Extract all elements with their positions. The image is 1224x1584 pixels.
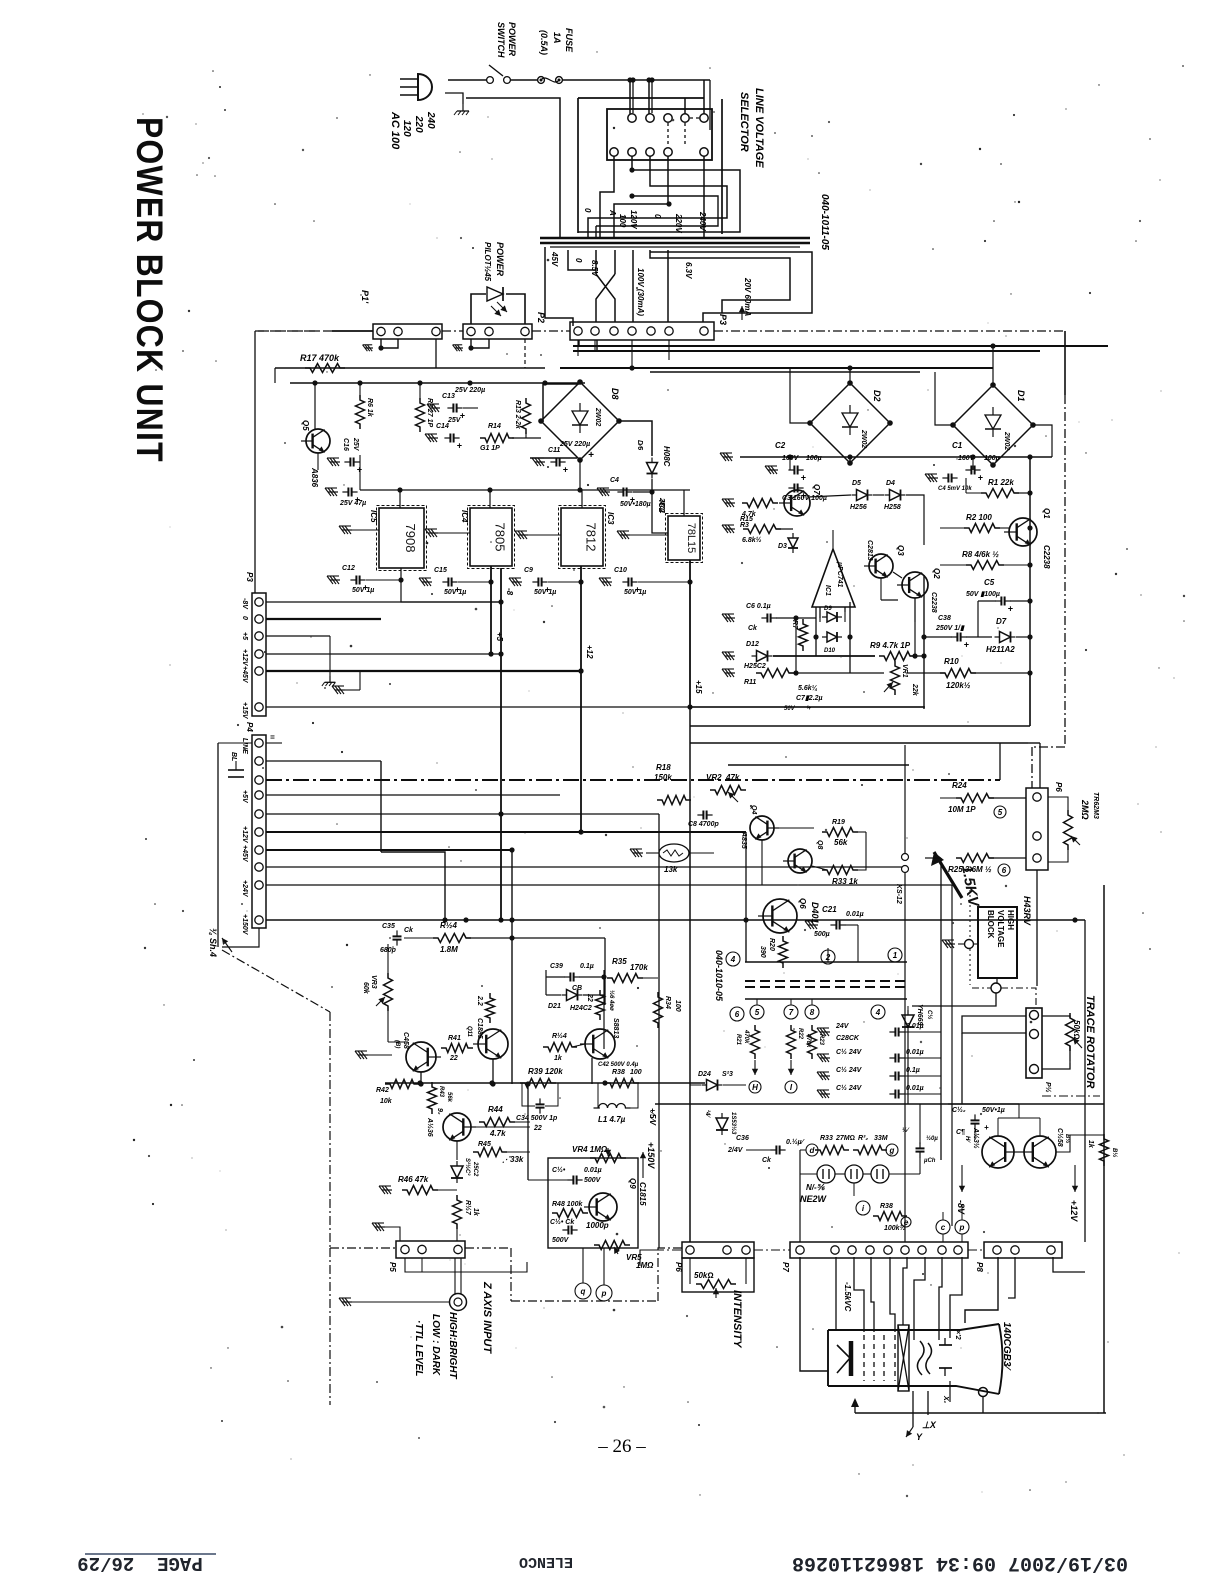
svg-text:R25 3.6M ½: R25 3.6M ½ (948, 865, 992, 874)
svg-text:120V: 120V (629, 210, 638, 229)
svg-text:INTENSITY: INTENSITY (731, 1290, 743, 1349)
svg-text:D⁄6: D⁄6 (636, 440, 643, 450)
T2 aux caps row2 (820, 1057, 830, 1059)
svg-text:C½₂: C½₂ (952, 1106, 966, 1114)
wire D1 right down (1033, 425, 1052, 457)
svg-text:C9: C9 (524, 567, 533, 574)
P5 under-loop (405, 1258, 527, 1272)
svg-text:H08C: H08C (662, 446, 671, 467)
svg-text:⁽+: ⁽+ (806, 705, 811, 712)
resistor R45 33k (473, 1148, 507, 1157)
svg-text:P1': P1' (360, 290, 370, 304)
svg-text:+: + (588, 450, 594, 461)
svg-text:R1 22k: R1 22k (988, 478, 1014, 487)
connector P7 (790, 1242, 968, 1258)
circled Q terminal (575, 1283, 591, 1299)
svg-text:C7▮2.2µ: C7▮2.2µ (796, 695, 823, 702)
svg-text:+5: +5 (241, 632, 248, 640)
svg-text:D7: D7 (996, 617, 1007, 626)
svg-text:P8: P8 (975, 1262, 984, 1272)
wire bus to bridge D8 top (545, 383, 579, 385)
svg-text:100: 100 (618, 214, 627, 228)
svg-text:SELECTOR: SELECTOR (738, 92, 750, 152)
svg-text:250V 1/▮: 250V 1/▮ (935, 625, 965, 632)
svg-text:+: + (978, 473, 984, 483)
svg-text:R38: R38 (880, 1203, 893, 1210)
svg-text:8.5V: 8.5V (590, 260, 599, 277)
resistor R8 4.6k (966, 561, 1004, 570)
svg-text:R2 100: R2 100 (966, 513, 992, 522)
pilot lamp loop (471, 294, 486, 324)
svg-text:R39 120k: R39 120k (528, 1067, 563, 1076)
resistor R17 470k (305, 364, 345, 373)
svg-text:SWITCH: SWITCH (496, 22, 506, 58)
svg-text:R35: R35 (612, 957, 627, 966)
svg-text:20V 60mA: 20V 60mA (743, 277, 752, 316)
wire x948 to Q area (948, 1103, 1019, 1105)
resistor R21 470k vertical (751, 1025, 760, 1059)
svg-text:-1.5kVC: -1.5kVC (843, 1282, 852, 1312)
vertical x512 long (511, 850, 513, 1084)
svg-text:PILOT½45: PILOT½45 (483, 242, 492, 282)
svg-text:500µ: 500µ (814, 931, 830, 938)
svg-text:78L15: 78L15 (685, 523, 697, 554)
resistor R32 27k (815, 1146, 849, 1155)
vertical x690 long (689, 707, 691, 1242)
svg-text:7805: 7805 (493, 523, 508, 552)
svg-text:1000p: 1000p (586, 1221, 609, 1230)
svg-text:470k: 470k (743, 1029, 749, 1044)
transformer T2 primary rail (745, 961, 907, 963)
wire from P6V loop (1048, 797, 1068, 810)
svg-text:0: 0 (653, 214, 662, 219)
HV block left terminal (965, 940, 974, 949)
wire drops to selector pins (632, 80, 634, 113)
svg-text:2W02: 2W02 (594, 407, 601, 426)
diode D12 H25C2 (725, 655, 735, 657)
circled I terminal (856, 1201, 870, 1215)
secondary tap 100V (632, 250, 634, 322)
IC3 voltage regulator 7812 (559, 506, 606, 569)
svg-text:LOW : DARK: LOW : DARK (430, 1314, 441, 1376)
transistor Q11 C458 (406, 1042, 436, 1072)
svg-text:c: c (941, 1223, 946, 1232)
vertical x941 (940, 858, 942, 1160)
strip bottom stub (222, 928, 259, 947)
svg-text:R44: R44 (488, 1105, 503, 1114)
svg-text:8: 8 (810, 1008, 815, 1017)
svg-text:100µ: 100µ (806, 455, 822, 462)
wire VR3 to Q11 (388, 1041, 408, 1043)
svg-text:R48 100k: R48 100k (552, 1201, 583, 1208)
coax to BNC (454, 1258, 456, 1294)
svg-text:S²½C²: S²½C² (464, 1158, 471, 1176)
svg-text:+45V: +45V (241, 666, 248, 684)
svg-text:H256: H256 (850, 504, 867, 511)
svg-text:040-1011-05: 040-1011-05 (819, 194, 830, 250)
svg-text:P4: P4 (245, 722, 254, 732)
CRT gun wires from P7 (800, 1257, 828, 1371)
IC5 voltage regulator 7908 (377, 506, 427, 571)
svg-text:0.01µ: 0.01µ (906, 1049, 924, 1056)
svg-text:C½: C½ (926, 1010, 933, 1019)
wires neon chain (800, 1173, 817, 1175)
CRT P8 wires (965, 1257, 998, 1323)
resistor R9 4.7k 1P (879, 652, 915, 661)
svg-text:H258: H258 (884, 504, 901, 511)
svg-text:D4: D4 (886, 480, 895, 487)
capacitor C15 under IC4 (422, 581, 432, 583)
svg-text:H: H (752, 1083, 758, 1092)
capacitor C28 250V (951, 636, 957, 638)
svg-text:R½4: R½4 (440, 921, 457, 930)
svg-text:N/-⅚: N/-⅚ (806, 1183, 826, 1192)
diode D4 H258 (890, 490, 901, 501)
svg-text:47k: 47k (725, 773, 740, 782)
svg-text:50kΩ: 50kΩ (694, 1271, 714, 1280)
ground stub near strip (335, 689, 345, 691)
svg-text:22: 22 (449, 1055, 458, 1062)
svg-text:C½• Ck: C½• Ck (550, 1218, 575, 1226)
ground below plug (462, 104, 464, 111)
resistor R41 22 (441, 1044, 473, 1053)
svg-text:60k: 60k (362, 982, 369, 995)
T2 primary nodes (726, 952, 740, 966)
ground stub P5 (375, 1226, 385, 1228)
svg-text:500V: 500V (584, 1177, 602, 1184)
svg-text:Q6: Q6 (798, 898, 807, 909)
svg-text:+150V: +150V (241, 914, 248, 936)
vertical from diode down (907, 1032, 909, 1104)
diode D7 H211A2 (1000, 632, 1011, 643)
resistor R7 5k vertical (799, 619, 808, 651)
resistor R33 1k (822, 866, 858, 875)
svg-text:+: + (460, 411, 466, 421)
bridge rectifier D2 (810, 383, 890, 463)
wire heavy y1104 (655, 1103, 1104, 1105)
svg-text:H211A2: H211A2 (986, 645, 1015, 654)
svg-text:0: 0 (241, 616, 248, 620)
svg-text:0: 0 (574, 258, 583, 263)
svg-text:+24V: +24V (241, 880, 248, 898)
secondary right nest (650, 252, 812, 322)
svg-text:22k: 22k (911, 683, 918, 697)
resistor R46 47k (382, 1189, 392, 1191)
footer PAGE 26/29 (rotated) (77, 1552, 216, 1574)
svg-text:R5 27 1P: R5 27 1P (426, 398, 433, 428)
svg-text:240: 240 (425, 111, 436, 129)
op-amp U1 uPC741 (812, 549, 855, 607)
resistor R50 1k vertical (1100, 1134, 1109, 1166)
arrow -8V (961, 1165, 963, 1192)
capacitor C44 50V 1u (974, 1114, 976, 1120)
resistor R13 2.2k vertical (522, 398, 531, 434)
wire D1 left (935, 372, 953, 425)
svg-text:¾ Sh.4: ¾ Sh.4 (208, 928, 218, 957)
svg-text:A835: A835 (740, 831, 747, 849)
svg-text:0.01µ: 0.01µ (906, 1023, 924, 1030)
op-amp pin wires (832, 530, 834, 549)
neon lamp NE3 (871, 1165, 889, 1183)
capacitor C35 680p (396, 930, 398, 936)
connector P3 (570, 322, 714, 340)
wire y938 (404, 937, 438, 939)
step wire to y920 (381, 852, 445, 920)
svg-text:C1885: C1885 (476, 1018, 483, 1039)
wire D2 left loop (790, 368, 810, 423)
trace rotator connector (1026, 1008, 1042, 1078)
CRT pin labels (906, 1427, 913, 1437)
wire y798 left of R24 (940, 797, 961, 799)
svg-text:4: 4 (875, 1008, 881, 1017)
svg-text:P6: P6 (1054, 782, 1063, 792)
footer document number and date (rotated) (792, 1551, 1128, 1574)
svg-text:+: + (1008, 604, 1014, 614)
svg-text:ELENCO: ELENCO (519, 1553, 573, 1570)
resistor R5 27 1P vertical (419, 383, 421, 400)
transformer T2 core dashed (745, 980, 907, 982)
capacitor C4 50V 180u (600, 491, 610, 493)
capacitor C40 0.01u 500V (567, 1179, 573, 1181)
wire D16 to IC2 (652, 479, 668, 533)
CRT deflection block with X (898, 1325, 909, 1391)
wire P4 fan y761 (266, 760, 381, 762)
svg-text:H43RV: H43RV (1022, 896, 1032, 926)
vertical x1085 down to P8 (1084, 920, 1086, 1242)
diode D21 H24C2 (567, 990, 578, 1001)
zener D22 S5C2 (451, 1166, 463, 1178)
diodes D9 D10 stack (827, 612, 837, 622)
connector P1 (373, 324, 442, 339)
svg-text:L1 4.7µ: L1 4.7µ (598, 1115, 626, 1124)
svg-text:IC4: IC4 (460, 510, 469, 523)
svg-text:+: + (563, 465, 569, 475)
svg-text:H25C2: H25C2 (744, 663, 766, 670)
vertical x796 (795, 618, 797, 673)
transistor Q7 (784, 490, 810, 516)
svg-text:R24: R24 (952, 781, 967, 790)
wire D2 top (849, 368, 851, 383)
svg-text:g: g (889, 1146, 895, 1155)
svg-text:03/19/2007 09:34 1866211026: 03/19/2007 09:34 18662110268 (792, 1551, 1128, 1574)
circled P terminal (596, 1285, 612, 1301)
dash-dot to trace rotator (972, 987, 991, 989)
capacitor C43 (919, 1142, 921, 1148)
vertical x952 down (951, 885, 953, 1226)
transistor Q10 A564 (443, 1113, 471, 1141)
svg-text:HIGH: HIGH (1006, 910, 1015, 930)
vertical x1104 right (1103, 885, 1105, 1413)
resistor R15 6.8k (725, 528, 735, 530)
resistor R35 170k (607, 974, 643, 983)
svg-text:R13 2-2k: R13 2-2k (514, 400, 521, 430)
AC plug (418, 74, 432, 100)
svg-text:+45V: +45V (241, 845, 248, 863)
svg-text:50V 1µ: 50V 1µ (352, 587, 374, 594)
svg-text:C6 0.1µ: C6 0.1µ (746, 603, 771, 610)
potentiometer VR1 22k (891, 661, 900, 695)
dashed below P2 (524, 339, 526, 368)
resistor R24 10M 1P (956, 794, 994, 803)
svg-text:R20: R20 (768, 938, 775, 951)
wire P1 pin down to R17 rail (435, 339, 437, 368)
svg-text:C39: C39 (550, 963, 563, 970)
svg-text:VR1: VR1 (901, 664, 908, 678)
svg-text:R15: R15 (740, 516, 753, 523)
IC2 voltage regulator 78L15 (666, 514, 703, 563)
scan speckles (472, 247, 474, 249)
svg-text:0.1µ: 0.1µ (906, 1067, 920, 1074)
BL capacitor mark (228, 769, 244, 771)
svg-text:R42: R42 (376, 1087, 389, 1094)
CRT plate caps (939, 1344, 952, 1346)
svg-text:25V 220µ: 25V 220µ (559, 441, 590, 448)
svg-text:160V: 160V (782, 455, 800, 462)
resistor R11 row (725, 672, 735, 674)
svg-text:C11: C11 (548, 447, 560, 454)
T1 secondary winding taps (545, 247, 573, 326)
svg-text:50kΩ: 50kΩ (1072, 1020, 1081, 1040)
svg-text:Q2: Q2 (932, 568, 941, 579)
svg-text:+: + (984, 1123, 989, 1132)
svg-text:C1815: C1815 (638, 1182, 647, 1206)
intensity pot box (682, 1258, 754, 1292)
wire P4 fan y867 (266, 866, 902, 868)
ground Q11 (358, 1054, 368, 1056)
svg-text:50V ▮100µ: 50V ▮100µ (966, 591, 1000, 598)
svg-text:D10: D10 (824, 648, 836, 654)
power switch S (487, 77, 494, 84)
svg-text:100: 100 (630, 1069, 642, 1076)
wire Q2 emitter down (914, 598, 916, 656)
svg-text:7908: 7908 (403, 524, 418, 553)
svg-text:+150V: +150V (646, 1142, 656, 1169)
connector P6V vertical (1026, 788, 1048, 870)
svg-text:TRACE ROTATOR: TRACE ROTATOR (1084, 995, 1096, 1089)
wire Q7 to diodes (808, 495, 851, 497)
capacitor C2 100u (788, 469, 794, 471)
resistor R10 120k (940, 669, 976, 678)
svg-text:C½ 24V: C½ 24V (836, 1048, 863, 1056)
svg-text:VR4 1MΩ: VR4 1MΩ (572, 1145, 608, 1154)
svg-text:C35: C35 (382, 923, 395, 930)
svg-text:LINE VOLTAGE: LINE VOLTAGE (753, 88, 765, 168)
capacitor C39 0.1u (564, 976, 570, 978)
selector dashed links (690, 117, 699, 119)
svg-text:100V (30mA): 100V (30mA) (636, 268, 645, 316)
capacitor C9 under IC3 (512, 581, 522, 583)
svg-text:D1: D1 (1016, 390, 1026, 402)
capacitor C1 160V 100u (965, 469, 971, 471)
svg-text:220: 220 (413, 115, 424, 133)
svg-text:R½4: R½4 (552, 1032, 567, 1040)
svg-text:q: q (581, 1287, 586, 1296)
svg-text:VOLTAGE: VOLTAGE (996, 910, 1005, 948)
svg-text:D8: D8 (610, 388, 620, 400)
wire y619 (266, 618, 381, 620)
resistor R2 100 (964, 524, 1000, 533)
svg-text:R³₂: R³₂ (858, 1135, 868, 1142)
svg-text:25V: 25V (352, 437, 359, 452)
diode D24 (707, 1080, 718, 1091)
svg-text:D12: D12 (746, 641, 759, 648)
resistor R25 3.6M half (956, 854, 994, 863)
svg-text:µPC741: µPC741 (836, 561, 843, 588)
resistor R38b 100 (605, 1079, 639, 1088)
svg-text:C14: C14 (436, 423, 449, 430)
wire y743 heavy top of mid section (1028, 742, 1040, 744)
svg-text:R43: R43 (438, 1086, 444, 1098)
svg-text:50V•1µ: 50V•1µ (982, 1107, 1005, 1114)
svg-text:+: + (801, 473, 807, 483)
dash-dot chassis bottom left (330, 1247, 396, 1249)
high voltage block (978, 907, 1017, 978)
svg-text:C½ 24V: C½ 24V (836, 1084, 863, 1092)
wire P4 fan y920 heavy (266, 919, 1085, 921)
svg-text:R38: R38 (612, 1069, 625, 1076)
svg-text:VR2: VR2 (706, 773, 722, 782)
svg-text:150k: 150k (654, 773, 672, 782)
svg-text:240V: 240V (698, 211, 707, 231)
svg-text:45V: 45V (550, 251, 559, 267)
svg-text:C16: C16 (342, 438, 349, 451)
svg-text:10k: 10k (380, 1098, 393, 1105)
svg-text:9₂: 9₂ (436, 1108, 443, 1115)
svg-text:24V: 24V (835, 1023, 850, 1030)
transistor Q14 (982, 1136, 1014, 1168)
bridge rectifier D1 (953, 385, 1033, 465)
svg-text:1k: 1k (472, 1208, 479, 1217)
blanking block box (548, 1158, 638, 1248)
svg-text:R14: R14 (488, 423, 501, 430)
svg-text:×'2: ×'2 (954, 1330, 961, 1340)
resistor R34 100k vertical (654, 992, 663, 1028)
capacitor C13 25V 220u (430, 407, 440, 409)
wire P4 fan y814 (266, 813, 659, 815)
svg-text:C½ 24V: C½ 24V (836, 1066, 863, 1074)
dash-dot stub right (1042, 1095, 1100, 1097)
pilot connector circles (902, 854, 909, 861)
neutral wire to transformer (466, 98, 560, 238)
svg-text:C10: C10 (614, 567, 627, 574)
svg-text:120k½: 120k½ (946, 681, 971, 690)
vertical x978 (977, 601, 979, 637)
connector P6 (682, 1242, 754, 1258)
resistor R48 100k (552, 1209, 588, 1218)
svg-text:G1 1P: G1 1P (480, 445, 500, 452)
vertical x800 (799, 1150, 801, 1242)
svg-text:D5: D5 (852, 480, 861, 487)
svg-text:7: 7 (789, 1008, 794, 1017)
svg-text:Ck: Ck (748, 625, 758, 632)
diode D25 1S5353 vertical (716, 1118, 728, 1130)
svg-text:+: + (964, 640, 970, 650)
diode stack rails (815, 607, 817, 656)
svg-text:IC2: IC2 (657, 500, 666, 513)
wire y765 (728, 764, 909, 766)
svg-text:+: + (457, 441, 463, 451)
wire mid rail y726 (690, 725, 1030, 727)
vertical x659 long down (658, 814, 660, 1248)
svg-text:C½•: C½• (552, 1166, 566, 1174)
svg-text:1.8M: 1.8M (440, 945, 458, 954)
vertical x924 (923, 575, 925, 709)
svg-text:C34 500V 1p: C34 500V 1p (516, 1115, 558, 1122)
svg-text:A½3½: A½3½ (972, 1127, 980, 1149)
svg-text:4: 4 (730, 955, 736, 964)
svg-text:50V 1µ: 50V 1µ (444, 589, 466, 596)
svg-text:Q5: Q5 (301, 420, 310, 431)
